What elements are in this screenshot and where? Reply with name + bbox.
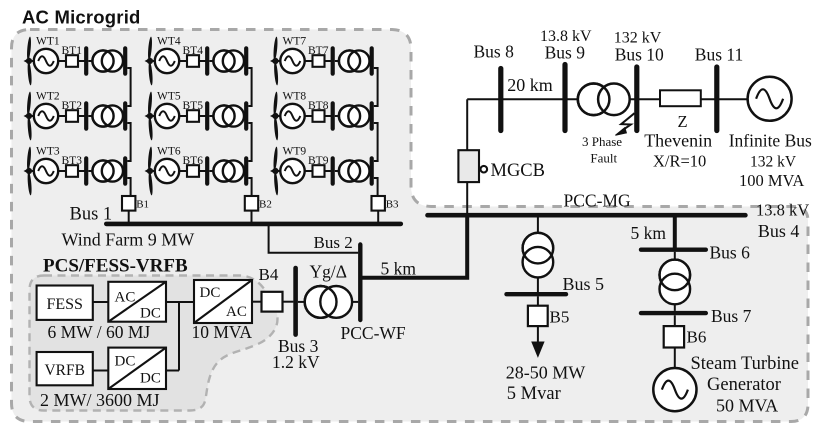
svg-text:BT5: BT5 (183, 100, 204, 112)
svg-text:DC: DC (115, 354, 136, 370)
svg-text:Thevenin: Thevenin (644, 131, 712, 151)
svg-text:WT7: WT7 (283, 36, 307, 48)
svg-text:Yg/Δ: Yg/Δ (310, 262, 348, 282)
svg-text:Z: Z (678, 112, 688, 131)
svg-text:WT8: WT8 (283, 91, 307, 103)
svg-text:Generator: Generator (707, 375, 781, 395)
svg-text:Bus 7: Bus 7 (711, 306, 752, 326)
svg-text:AC Microgrid: AC Microgrid (22, 7, 141, 28)
svg-text:Infinite Bus: Infinite Bus (729, 131, 812, 151)
svg-text:Bus 11: Bus 11 (695, 45, 743, 65)
svg-text:PCS/FESS-VRFB: PCS/FESS-VRFB (43, 256, 188, 277)
svg-text:WT2: WT2 (36, 91, 60, 103)
svg-text:2 MW/ 3600 MJ: 2 MW/ 3600 MJ (40, 390, 160, 410)
svg-text:B3: B3 (386, 199, 399, 211)
svg-text:B1: B1 (136, 199, 149, 211)
svg-text:B5: B5 (550, 308, 570, 327)
svg-text:BT2: BT2 (62, 100, 83, 112)
svg-text:20 km: 20 km (507, 75, 553, 95)
svg-text:B2: B2 (259, 199, 272, 211)
svg-text:DC: DC (140, 371, 161, 387)
svg-text:Wind Farm 9 MW: Wind Farm 9 MW (62, 230, 195, 250)
svg-text:VRFB: VRFB (44, 362, 85, 379)
svg-text:WT9: WT9 (283, 146, 307, 158)
svg-text:1.2 kV: 1.2 kV (272, 352, 320, 372)
svg-text:132 kV: 132 kV (750, 153, 797, 170)
svg-text:Bus 10: Bus 10 (615, 45, 664, 65)
svg-text:WT4: WT4 (157, 36, 181, 48)
svg-text:DC: DC (200, 285, 221, 301)
svg-text:MGCB: MGCB (491, 161, 546, 181)
svg-text:DC: DC (140, 306, 161, 322)
svg-text:BT7: BT7 (308, 45, 329, 57)
svg-text:Bus 4: Bus 4 (758, 221, 800, 241)
svg-text:10 MVA: 10 MVA (192, 322, 253, 342)
svg-text:28-50 MW: 28-50 MW (506, 363, 586, 383)
svg-text:Bus 1: Bus 1 (70, 205, 113, 225)
svg-text:Bus 9: Bus 9 (545, 43, 586, 63)
svg-text:Bus 5: Bus 5 (563, 274, 605, 294)
svg-text:13.8 kV: 13.8 kV (756, 201, 809, 220)
svg-text:5 Mvar: 5 Mvar (507, 384, 561, 404)
svg-text:Bus 8: Bus 8 (474, 42, 515, 62)
svg-text:6 MW / 60 MJ: 6 MW / 60 MJ (48, 322, 151, 342)
svg-text:5 km: 5 km (381, 259, 417, 279)
svg-text:WT5: WT5 (157, 91, 181, 103)
svg-text:X/R=10: X/R=10 (653, 151, 706, 170)
svg-text:AC: AC (226, 304, 247, 320)
svg-text:Bus 6: Bus 6 (710, 243, 751, 263)
svg-text:50 MVA: 50 MVA (716, 396, 778, 416)
svg-text:BT9: BT9 (308, 155, 329, 167)
svg-text:AC: AC (115, 290, 136, 306)
svg-text:BT4: BT4 (183, 45, 204, 57)
svg-text:3 Phase: 3 Phase (582, 134, 622, 149)
svg-text:WT3: WT3 (36, 146, 60, 158)
svg-text:Steam Turbine: Steam Turbine (691, 354, 799, 374)
svg-text:BT6: BT6 (183, 155, 204, 167)
svg-text:100 MVA: 100 MVA (739, 171, 804, 190)
svg-text:B4: B4 (259, 265, 279, 284)
svg-text:PCC-MG: PCC-MG (564, 191, 631, 211)
svg-text:BT1: BT1 (62, 45, 83, 57)
svg-text:WT6: WT6 (157, 146, 181, 158)
svg-text:BT8: BT8 (308, 100, 329, 112)
svg-text:Fault: Fault (590, 150, 617, 165)
svg-text:Bus 2: Bus 2 (314, 233, 353, 252)
svg-text:BT3: BT3 (62, 155, 83, 167)
svg-text:5 km: 5 km (631, 223, 667, 243)
svg-text:WT1: WT1 (36, 36, 60, 48)
svg-text:B6: B6 (687, 327, 707, 346)
svg-text:PCC-WF: PCC-WF (341, 323, 406, 343)
svg-text:FESS: FESS (46, 296, 82, 313)
